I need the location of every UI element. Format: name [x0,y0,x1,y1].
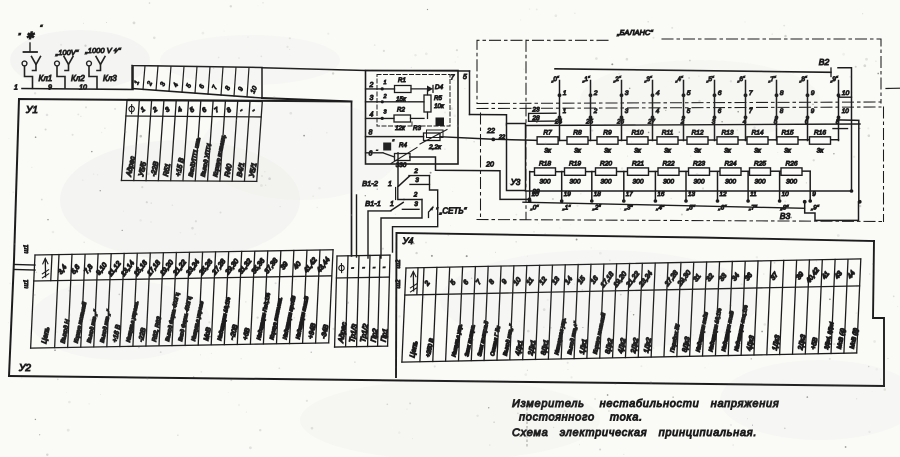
wire R16 to arm stub [833,128,848,130]
svg-text:R20: R20 [600,161,612,168]
switch В1-1 [365,192,422,211]
resistor R23 300 [689,161,710,186]
resistor R20 300 [596,161,617,186]
svg-text:R2: R2 [397,107,405,114]
svg-text:R7: R7 [543,130,552,137]
svg-text:1: 1 [388,181,392,188]
dash-dot vertical x526 [525,40,527,219]
dashed inner box [377,75,450,127]
svg-text:R1: R1 [398,77,406,84]
resistor R10 3к [627,130,648,155]
svg-text:1: 1 [563,90,567,97]
block У5 box outline [366,71,459,165]
wire В1-1 contact 2 down [381,200,422,259]
title line 1 [512,398,779,410]
switch В2 contact 6 [705,75,722,140]
resistor R2 10к [394,107,424,133]
svg-text:5: 5 [463,74,467,81]
svg-text:3к: 3к [784,148,792,155]
svg-text:3: 3 [370,95,374,102]
svg-text:24: 24 [554,119,563,126]
svg-text:3к: 3к [604,148,612,155]
svg-text:17: 17 [626,191,634,198]
resistor R25 300 [750,161,771,186]
svg-text:28: 28 [531,115,540,122]
svg-text:300: 300 [693,179,704,186]
switch В3 contact 1 [560,172,571,212]
svg-text:„БАЛАНС“: „БАЛАНС“ [616,28,653,37]
resistor R5 10к [424,89,445,119]
pin 6 wire [366,152,384,154]
switch В3 contact 6 [716,172,727,212]
svg-text:3к: 3к [754,148,762,155]
svg-text:ш1: ш1 [23,244,30,253]
resistor R24 300 [720,161,741,186]
svg-text:25: 25 [585,119,594,126]
svg-text:12к: 12к [395,125,406,132]
resistor R8 3к [567,130,588,155]
svg-text:R25: R25 [754,161,766,168]
svg-text:22: 22 [498,135,505,141]
wire У1 edge second line [356,195,358,257]
resistor R3 2,2к potentiometer [420,130,447,152]
switch В3 arm [805,202,859,221]
resistor R4 330 trimmer [383,142,417,169]
svg-text:19: 19 [564,191,572,198]
svg-text:„1“: „1“ [562,205,572,212]
svg-text:11: 11 [750,191,757,198]
svg-text:R22: R22 [662,161,674,168]
switch В2 contact 8 [767,75,784,140]
block У3 [507,124,526,191]
wire net 22 [440,137,537,141]
svg-text:D4: D4 [435,84,444,91]
resistor R1 15к [395,77,412,103]
switch В2 contact 4 [643,75,660,140]
resistor R11 3к [657,130,678,155]
svg-text:„7“: „7“ [748,205,758,212]
svg-text:R5: R5 [434,95,442,102]
svg-text:2: 2 [382,94,386,100]
svg-text:2,2к: 2,2к [428,144,442,151]
svg-text:1: 1 [563,108,567,115]
block У4 outline [397,233,875,241]
svg-text:„СЕТЬ“: „СЕТЬ“ [439,207,467,216]
wire stub 28 [529,120,556,122]
pin 2 [366,88,395,90]
wire clamp bus [22,66,133,90]
switch В2 common line [555,69,831,73]
svg-text:R9: R9 [603,130,612,137]
svg-text:15к: 15к [396,96,407,103]
svg-text:330: 330 [396,162,407,169]
svg-text:R4: R4 [399,142,407,149]
svg-text:300: 300 [569,179,580,186]
svg-text:3: 3 [415,177,419,184]
pin 5 and 7 wires [366,70,470,73]
svg-text:10к: 10к [434,103,445,110]
svg-text:В1-1: В1-1 [365,199,381,208]
svg-text:300: 300 [754,179,765,186]
svg-text:3к: 3к [544,148,552,155]
switch В3 contact 2 [590,172,601,212]
svg-text:„9“: „9“ [810,205,820,212]
resistor R21 300 [628,161,649,186]
svg-text:R26: R26 [785,161,797,168]
svg-text:3: 3 [414,201,418,208]
block У1 right edge [351,102,353,257]
svg-text:У2: У2 [18,363,31,374]
svg-text:23: 23 [531,107,540,114]
title line 3 [512,427,757,439]
resistor R15 3к [777,130,798,155]
svg-text:R19: R19 [569,161,581,168]
switch В2 contact 7 [736,75,753,140]
dash-dot box БАЛАНС top [477,40,608,103]
wire net 20 [410,157,530,199]
switch В2 contact 3 [612,75,629,140]
switch В3 contact 4 [654,172,665,212]
switch В3 contact 9 [808,172,819,212]
connector table Адрес of У2 [333,255,392,347]
clamp Кл3 [79,57,117,92]
svg-text:12: 12 [720,191,728,198]
title line 2 [519,412,643,424]
dash-dot box lower [480,113,482,219]
pin 8 wire [366,136,424,138]
switch В3 contact 7 [746,172,757,212]
svg-text:R16: R16 [814,130,826,137]
switch В2 contact 10 [829,75,850,140]
wire В1 pivots [397,153,399,187]
switch В2 contact 9 [798,75,815,140]
clamp Кл2 [48,57,85,92]
svg-text:3к: 3к [634,148,642,155]
svg-text:R15: R15 [781,130,793,137]
switch В3 contact 0 [528,172,539,212]
test point square 1 [436,118,444,126]
svg-text:„3“: „3“ [624,205,634,212]
svg-text:16: 16 [657,191,665,198]
svg-text:10: 10 [842,108,850,115]
svg-text:1: 1 [390,201,394,208]
svg-text:В2: В2 [819,57,830,67]
scan edge mark right [886,87,900,89]
block У1 outline [9,99,352,376]
svg-text:2: 2 [413,192,418,199]
wire В3 contact bus [523,202,805,208]
resistor R19 300 [565,161,586,186]
svg-text:300: 300 [663,179,674,186]
svg-text:R3: R3 [413,125,421,132]
svg-text:„2“: „2“ [592,205,602,212]
dash-dot line y108 [477,107,881,109]
svg-text:У4: У4 [402,236,414,246]
connector Ш2 table [400,259,863,362]
resistor R16 3к [810,130,831,155]
switch В3 contact 3 [622,172,633,212]
svg-text:R8: R8 [573,130,582,137]
svg-text:ш2: ш2 [395,279,402,288]
svg-text:13: 13 [688,191,696,198]
svg-text:300: 300 [725,179,736,186]
wire row to box [262,68,366,71]
resistor R18 300 [535,161,556,186]
wire В1-2 contacts down [393,176,438,252]
svg-text:3к: 3к [817,148,825,155]
svg-text:2: 2 [369,82,374,89]
pin 4 [366,117,395,119]
svg-text:20: 20 [531,189,540,196]
svg-text:10: 10 [842,90,850,97]
resistor R13 3к [717,130,738,155]
svg-text:R23: R23 [693,161,705,168]
switch В3 contact 8 [778,172,789,212]
svg-text:В3: В3 [780,211,791,221]
switch В3 contact 5 [684,172,695,212]
switch В2 arm [838,68,852,191]
scan crease mark [526,404,528,446]
svg-text:R21: R21 [632,161,644,168]
node 22 [491,138,495,142]
svg-text:„0“: „0“ [530,205,540,212]
dash-dot line y103 [477,102,881,104]
wire В1-1 pivot to table [368,211,391,258]
diode D4 [411,84,444,92]
resistor R26 300 [781,161,802,186]
wire chain row 2 [530,170,811,173]
svg-text:22: 22 [486,128,495,135]
switch В2 contact 2 [581,75,598,140]
connector Ш1 table [29,250,335,348]
svg-text:ш2: ш2 [395,259,402,268]
svg-text:300: 300 [786,179,797,186]
svg-text:3к: 3к [724,148,732,155]
svg-text:„: „ [18,29,21,36]
svg-text:18: 18 [594,191,602,198]
clamp Кл1 [14,57,52,92]
wire stub 23 [529,113,556,121]
svg-text:У3: У3 [510,178,521,187]
resistor R9 3к [597,130,618,155]
svg-text:300: 300 [600,179,611,186]
resistor R14 3к [747,130,768,155]
svg-text:300: 300 [539,179,550,186]
switch В1-2 [362,168,429,188]
switch В2 contact 5 [674,75,691,140]
pin 3 [366,101,425,103]
test point square 2 [384,143,391,150]
svg-text:3к: 3к [694,148,702,155]
wire chain row 1 [537,139,839,142]
ground/star symbol [18,25,43,52]
node 20 В3 [528,198,532,202]
wire В3 arm vertical [837,120,859,200]
svg-text:R24: R24 [724,161,736,168]
svg-text:3к: 3к [574,148,582,155]
wire bus y125.5 [526,124,860,126]
svg-text:9: 9 [812,191,816,198]
connector table Адрес of У1 [121,100,262,181]
svg-text:3к: 3к [664,148,672,155]
resistor R12 3к [687,130,708,155]
svg-text:10: 10 [782,191,790,198]
resistor R7 3к [537,130,558,155]
block У2 bottom edge [9,376,884,386]
wire У3 to В2 arm [526,190,852,192]
svg-text:20: 20 [485,162,494,169]
svg-text:У1: У1 [25,105,38,116]
svg-text:1: 1 [383,80,386,86]
mains plug symbol [429,208,434,218]
connector Ш1 stub lines [14,264,35,267]
svg-text:1: 1 [14,85,18,92]
resistor R22 300 [658,161,679,186]
switch В2 contact 1 [550,75,567,140]
svg-text:2: 2 [413,168,418,175]
svg-text:„6“: „6“ [718,205,728,212]
svg-text:300: 300 [632,179,643,186]
connector row pins 1-10 of У1 [132,66,262,99]
